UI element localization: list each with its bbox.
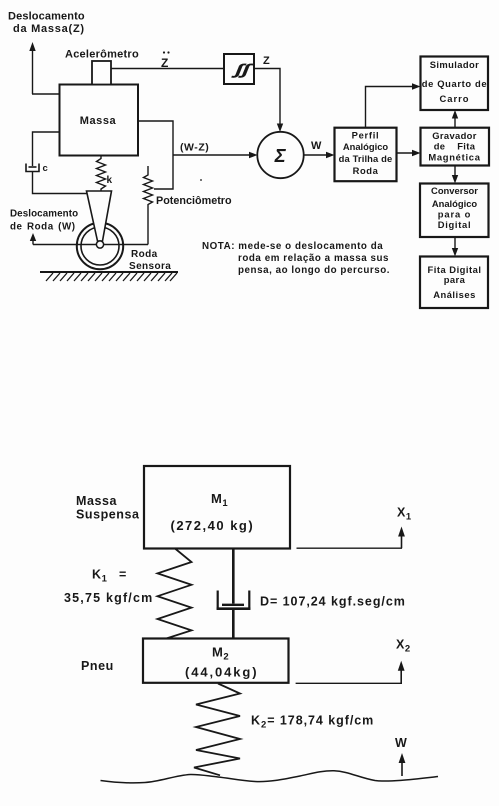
block Simulador de Quarto de Carro [421, 57, 489, 111]
svg-text:Acelerômetro: Acelerômetro [65, 49, 139, 61]
svg-text:W: W [311, 140, 322, 152]
label X2 [396, 638, 411, 655]
label Z [263, 55, 270, 67]
label W [395, 736, 407, 750]
svg-text:Z: Z [161, 56, 169, 70]
svg-text:de Roda (W): de Roda (W) [10, 222, 76, 233]
svg-text:35,75 kgf/cm: 35,75 kgf/cm [64, 591, 153, 605]
label Deslocamento de Roda (W) [10, 209, 78, 233]
label k [107, 175, 113, 186]
svg-text:de Fita: de Fita [434, 141, 476, 152]
fork cone [87, 191, 112, 241]
axis line X2 [296, 682, 402, 684]
arrow displacement Z up [29, 42, 35, 94]
wire hub to potentiometer [104, 244, 149, 246]
svg-text:Roda: Roda [131, 249, 158, 260]
accelerometer box [92, 61, 111, 85]
svg-text:c: c [43, 163, 49, 174]
damper D cylinder [217, 591, 251, 609]
svg-text:da Trilha de: da Trilha de [339, 153, 393, 164]
summing junction [257, 132, 303, 178]
label Roda Sensora [129, 249, 171, 272]
svg-text:pensa, ao longo do percurso.: pensa, ao longo do percurso. [238, 265, 390, 276]
svg-text:NOTA: mede-se o deslocamento d: NOTA: mede-se o deslocamento da [202, 241, 383, 252]
arrow X1 [398, 527, 405, 549]
svg-text:Roda: Roda [353, 165, 379, 176]
wire perfil to gravador [397, 150, 421, 156]
integrator block U1 [224, 54, 254, 84]
block Perfil Analogico da Trilha de Roda [335, 128, 397, 182]
mass block M2 [143, 639, 289, 683]
potentiometer [144, 166, 153, 245]
svg-text:Magnética: Magnética [428, 152, 480, 163]
label Pneu [81, 659, 114, 673]
label K1 value [64, 568, 153, 606]
damper c [26, 164, 39, 172]
svg-text:Simulador: Simulador [430, 59, 479, 70]
svg-text:X2: X2 [396, 638, 411, 655]
label Acelerometro [65, 49, 139, 61]
svg-text:Massa: Massa [80, 115, 117, 127]
sensor wheel [77, 223, 123, 269]
label Potenciometro [156, 195, 232, 207]
svg-text:(W-Z): (W-Z) [180, 142, 209, 154]
wire massa to damper c [33, 132, 60, 166]
label c [43, 163, 49, 174]
svg-text:Σ: Σ [274, 145, 287, 166]
svg-text:Potenciômetro: Potenciômetro [156, 195, 232, 207]
svg-text:K2= 178,74 kgf/cm: K2= 178,74 kgf/cm [251, 714, 374, 731]
wire perfil to simulador [366, 83, 421, 127]
spring k [97, 156, 106, 191]
svg-text:Suspensa: Suspensa [76, 508, 140, 522]
svg-text:K1: K1 [92, 568, 108, 585]
svg-text:Deslocamento: Deslocamento [10, 209, 78, 220]
svg-text:para: para [444, 274, 466, 285]
wheel hub [96, 241, 103, 248]
axis line X1 [297, 547, 403, 549]
svg-text:Analógico: Analógico [343, 141, 389, 152]
block Fita Digital para Analises [420, 257, 488, 309]
block Conversor Analogico para o Digital [420, 184, 489, 238]
wire gravador up to simulador [452, 110, 458, 128]
arrow X2 [398, 661, 405, 684]
label (W-Z) [180, 142, 209, 154]
svg-text:X1: X1 [397, 506, 412, 523]
svg-text:Deslocamento: Deslocamento [8, 11, 85, 23]
damper D piston [222, 604, 244, 606]
spring K2 [194, 684, 240, 776]
damper D rod upper [232, 548, 235, 604]
svg-text:Análises: Análises [433, 289, 476, 300]
label K2 value [251, 714, 374, 731]
note text [202, 241, 390, 276]
wire accel to integrator [111, 68, 224, 70]
wire damper to wheel fork [33, 172, 88, 194]
svg-text:=: = [119, 568, 127, 582]
svg-text:Digital: Digital [438, 219, 472, 230]
wire W-Z to sum [173, 152, 258, 158]
label Z-ddot [161, 51, 170, 70]
svg-text:Sensora: Sensora [129, 261, 171, 272]
spring K1 [158, 549, 192, 641]
svg-text:W: W [395, 736, 407, 750]
ground wavy line [101, 771, 439, 783]
wire gravador down to conversor [452, 166, 458, 184]
svg-text:roda em relação a massa sus: roda em relação a massa sus [238, 253, 389, 264]
mass block M1 [144, 466, 290, 549]
label X1 [397, 506, 412, 523]
damper D rod lower [232, 609, 235, 639]
svg-text:(44,04kg): (44,04kg) [185, 665, 258, 680]
stray mark [200, 179, 202, 181]
block Massa [60, 85, 139, 156]
svg-text:de Quarto de: de Quarto de [422, 78, 488, 89]
wire hub left [33, 244, 97, 246]
svg-text:da Massa(Z): da Massa(Z) [13, 23, 85, 35]
arrow W [399, 753, 406, 776]
svg-text:Perfil: Perfil [352, 130, 380, 141]
svg-text:Conversor: Conversor [431, 185, 478, 196]
label Massa Suspensa [76, 494, 140, 522]
svg-text:Pneu: Pneu [81, 659, 114, 673]
svg-text:(272,40 kg): (272,40 kg) [171, 518, 255, 533]
wire massa to potentiometer tap [138, 121, 173, 189]
arrow displacement W [30, 233, 36, 245]
svg-text:Gravador: Gravador [432, 130, 476, 141]
ground hatching [40, 272, 178, 281]
wire sum to perfil W [304, 152, 335, 158]
label D value [260, 595, 406, 609]
svg-text:para o: para o [438, 209, 472, 220]
label Deslocamento da Massa(Z) [8, 11, 85, 36]
label W [311, 140, 322, 152]
wire arrow-to-massa [32, 93, 60, 95]
svg-text:Carro: Carro [439, 93, 469, 104]
svg-text:Analógico: Analógico [432, 198, 478, 209]
svg-text:D= 107,24 kgf.seg/cm: D= 107,24 kgf.seg/cm [260, 595, 406, 609]
wire integrator to sum [254, 69, 283, 133]
svg-text:Z: Z [263, 55, 270, 67]
svg-text:Massa: Massa [76, 494, 117, 508]
block Gravador de Fita Magnetica [421, 128, 490, 166]
wire conversor to fita [452, 237, 458, 257]
svg-text:k: k [107, 175, 113, 186]
